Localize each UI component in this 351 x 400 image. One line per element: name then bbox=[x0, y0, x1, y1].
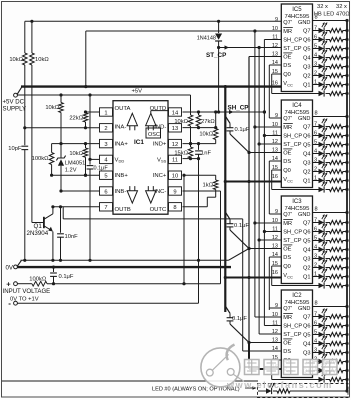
svg-text:8: 8 bbox=[315, 301, 318, 307]
label LM4051 bbox=[65, 161, 86, 174]
bus joints bbox=[253, 110, 266, 241]
svg-text:0.1μF: 0.1μF bbox=[235, 127, 250, 133]
svg-text:16: 16 bbox=[272, 174, 278, 180]
svg-text:+5V: +5V bbox=[132, 88, 143, 94]
svg-text:1: 1 bbox=[104, 110, 107, 116]
svg-text:11: 11 bbox=[272, 321, 278, 327]
wire pin13 IND- line bbox=[183, 126, 218, 129]
resistor 10k (ref) bbox=[59, 103, 64, 113]
svg-text:Q3: Q3 bbox=[303, 65, 311, 71]
IC4 GND pin 8 bbox=[298, 111, 349, 123]
wire ref node bbox=[59, 113, 62, 146]
label 0V TO +1V bbox=[10, 297, 39, 303]
svg-text:8: 8 bbox=[315, 111, 318, 117]
svg-text:100kΩ: 100kΩ bbox=[29, 277, 47, 283]
wire IC4 pin14 link down bbox=[268, 161, 270, 214]
label 15k bbox=[174, 150, 188, 156]
svg-text:OE: OE bbox=[283, 55, 291, 61]
svg-text:9: 9 bbox=[173, 189, 176, 195]
svg-text:IC2: IC2 bbox=[292, 293, 302, 299]
svg-text:0.1μF: 0.1μF bbox=[59, 274, 74, 280]
resistor 22k bbox=[83, 110, 88, 129]
svg-text:Q7: Q7 bbox=[303, 125, 311, 131]
svg-text:10kΩ: 10kΩ bbox=[69, 151, 83, 157]
svg-text:12: 12 bbox=[172, 142, 178, 148]
IC3 GND pin 8 bbox=[298, 207, 349, 219]
shift register IC5 74HC595 box bbox=[281, 4, 312, 92]
wire pin12 IND+ line bbox=[183, 142, 216, 145]
svg-text:15kΩ: 15kΩ bbox=[174, 150, 188, 156]
label +5V over IC1 bbox=[132, 88, 143, 94]
svg-text:15: 15 bbox=[272, 261, 278, 267]
svg-text:13: 13 bbox=[272, 338, 278, 344]
IC4 LED rows bbox=[272, 118, 349, 193]
svg-text:VDD: VDD bbox=[115, 157, 125, 163]
svg-text:Q0: Q0 bbox=[283, 72, 291, 78]
IC2 LED rows bbox=[272, 308, 349, 383]
svg-text:OUTB: OUTB bbox=[115, 207, 131, 213]
svg-text:Q7: Q7 bbox=[303, 221, 311, 227]
input + terminal bbox=[6, 280, 17, 289]
svg-text:9: 9 bbox=[275, 113, 278, 119]
svg-text:INB+: INB+ bbox=[115, 173, 129, 179]
capacitor 0.1uF IC3 bbox=[225, 212, 250, 250]
svg-text:OUTA: OUTA bbox=[115, 106, 131, 112]
wire ST_CP bbox=[217, 45, 281, 112]
svg-text:Q7': Q7' bbox=[283, 20, 292, 26]
label ST_CP bbox=[206, 52, 226, 59]
LED supply bus right bbox=[313, 21, 348, 392]
svg-text:10: 10 bbox=[172, 174, 178, 180]
wire pin10 INC+ line bbox=[182, 174, 215, 284]
svg-text:13: 13 bbox=[272, 148, 278, 154]
svg-text:Q6: Q6 bbox=[303, 324, 311, 330]
svg-text:9: 9 bbox=[275, 209, 278, 215]
label LED #0 bbox=[152, 386, 257, 392]
svg-text:ST_CP: ST_CP bbox=[283, 238, 301, 244]
svg-text:INPUT VOLTAGE: INPUT VOLTAGE bbox=[3, 288, 51, 295]
diode LM4051 1.2V bbox=[56, 144, 65, 193]
diode 1N4148 bbox=[215, 20, 222, 48]
wire input node bbox=[47, 282, 221, 285]
+5V wire (lower rail) bbox=[17, 93, 190, 96]
svg-text:Q5: Q5 bbox=[303, 239, 311, 245]
svg-text:11: 11 bbox=[272, 227, 278, 233]
svg-text:IC4: IC4 bbox=[292, 103, 302, 109]
label 100k bbox=[32, 156, 50, 162]
oscillator OSC box bbox=[146, 128, 161, 138]
svg-text:11: 11 bbox=[272, 35, 278, 41]
svg-text:Q5: Q5 bbox=[303, 333, 311, 339]
svg-text:10kΩ: 10kΩ bbox=[174, 119, 188, 125]
svg-text:GND: GND bbox=[298, 306, 311, 312]
svg-text:OUTD: OUTD bbox=[150, 106, 167, 112]
svg-text:14: 14 bbox=[272, 346, 278, 352]
svg-text:8: 8 bbox=[315, 207, 318, 213]
svg-text:1N4148: 1N4148 bbox=[197, 36, 216, 42]
label 100k input bbox=[29, 277, 47, 283]
wire pin4 VDD line bbox=[90, 158, 100, 160]
label Q1 bbox=[34, 223, 43, 230]
svg-text:SH_CP: SH_CP bbox=[283, 230, 302, 236]
wire OUTD SH_CP line bbox=[183, 110, 267, 114]
op-amp C arrow bbox=[146, 186, 156, 203]
capacitor 0.1uF IC4 bbox=[225, 116, 250, 154]
svg-text:2: 2 bbox=[104, 126, 107, 132]
svg-text:-: - bbox=[8, 299, 11, 308]
wire 10pF branch bbox=[23, 65, 26, 145]
wire VCC IC4 feed bbox=[224, 180, 282, 183]
bus OE/VCC vertical bbox=[247, 57, 250, 343]
label 10k right bbox=[35, 57, 49, 63]
svg-text:DS: DS bbox=[283, 159, 291, 165]
label 10k pin3 bbox=[69, 151, 83, 157]
label 0.1uF VDD bbox=[94, 166, 109, 172]
svg-text:10: 10 bbox=[272, 26, 278, 32]
shift register IC2 74HC595 box bbox=[281, 290, 312, 378]
svg-text:LM4051: LM4051 bbox=[65, 161, 86, 167]
svg-text:Q0: Q0 bbox=[283, 168, 291, 174]
svg-text:Q6: Q6 bbox=[303, 134, 311, 140]
svg-text:10: 10 bbox=[272, 312, 278, 318]
svg-text:ST_CP: ST_CP bbox=[206, 52, 226, 59]
wire pin1 OUTA line bbox=[86, 111, 100, 113]
svg-text:Q1: Q1 bbox=[34, 223, 43, 230]
svg-text:470Ω: 470Ω bbox=[336, 11, 350, 17]
label INPUT VOLTAGE bbox=[3, 288, 51, 295]
label 22k bbox=[69, 115, 83, 121]
label 1nF bbox=[201, 150, 211, 156]
svg-text:10: 10 bbox=[272, 122, 278, 128]
label 1N4148 bbox=[197, 36, 216, 42]
IC1 pin labels bbox=[115, 106, 168, 213]
svg-text:Q2: Q2 bbox=[303, 266, 311, 272]
svg-text:Q4: Q4 bbox=[303, 152, 311, 158]
svg-text:+5V DC: +5V DC bbox=[3, 99, 25, 106]
resistor 10k c bbox=[213, 112, 218, 144]
svg-text:11: 11 bbox=[172, 158, 178, 164]
capacitor 0.1uF (VDD) bbox=[87, 159, 94, 262]
svg-text:INA+: INA+ bbox=[115, 141, 129, 147]
IC3 LED rows bbox=[272, 214, 349, 289]
svg-text:Q6: Q6 bbox=[303, 230, 311, 236]
transistor Q1 2N3904 bbox=[32, 207, 55, 262]
svg-text:13: 13 bbox=[272, 52, 278, 58]
svg-text:Q1: Q1 bbox=[303, 83, 311, 89]
svg-text:15: 15 bbox=[272, 69, 278, 75]
svg-text:7: 7 bbox=[104, 205, 107, 211]
capacitor 1nF bbox=[195, 144, 202, 161]
svg-text:Q4: Q4 bbox=[303, 56, 311, 62]
svg-text:8: 8 bbox=[173, 205, 176, 211]
+5V bus (thick) bbox=[17, 87, 281, 95]
IC1 right pin numbers 14-8 bbox=[169, 108, 182, 211]
wire OUTB route to IC2 DS bbox=[63, 207, 281, 351]
svg-text:OUTC: OUTC bbox=[150, 207, 167, 213]
svg-text:MR: MR bbox=[283, 29, 292, 35]
svg-text:Q1: Q1 bbox=[303, 275, 311, 281]
wire pin7 OUTB line bbox=[51, 205, 99, 208]
svg-text:INB-: INB- bbox=[115, 189, 127, 195]
op-amp D arrow bbox=[146, 111, 168, 131]
svg-text:13: 13 bbox=[272, 244, 278, 250]
IC5 LED rows bbox=[272, 22, 349, 97]
wire pin11 VSS line bbox=[183, 159, 201, 304]
svg-text:10kΩ: 10kΩ bbox=[199, 132, 213, 138]
svg-text:2N3904: 2N3904 bbox=[27, 230, 49, 237]
label 1k bbox=[203, 182, 214, 188]
svg-text:SH_CP: SH_CP bbox=[228, 104, 249, 111]
svg-text:Q4: Q4 bbox=[303, 342, 311, 348]
wire VDD riser bbox=[88, 95, 91, 161]
svg-text:12: 12 bbox=[272, 235, 278, 241]
svg-text:22kΩ: 22kΩ bbox=[69, 115, 83, 121]
svg-text:IC5: IC5 bbox=[292, 7, 302, 13]
wire 0V to busA diagonal bbox=[228, 249, 249, 261]
svg-text:IND+: IND+ bbox=[153, 141, 167, 147]
svg-text:6: 6 bbox=[104, 189, 107, 195]
svg-text:100kΩ: 100kΩ bbox=[32, 156, 50, 162]
svg-text:10nF: 10nF bbox=[65, 234, 79, 240]
svg-text:10kΩ: 10kΩ bbox=[35, 57, 49, 63]
svg-text:1.2V: 1.2V bbox=[65, 168, 77, 174]
wire VCC IC3 feed bbox=[224, 276, 282, 279]
svg-text:Q7: Q7 bbox=[303, 29, 311, 35]
IC5 GND pin 8 bbox=[298, 15, 349, 27]
svg-text:ST_CP: ST_CP bbox=[283, 142, 301, 148]
svg-text:DS: DS bbox=[283, 255, 291, 261]
svg-text:0.1μF: 0.1μF bbox=[232, 316, 247, 322]
label 10k c bbox=[199, 132, 213, 138]
resistor 10k (to Q1 base) bbox=[30, 20, 35, 223]
wire pin3 INA+ line bbox=[61, 143, 100, 145]
svg-text:12: 12 bbox=[272, 139, 278, 145]
IC1 left pin numbers 1-7 bbox=[100, 108, 113, 211]
watermark text row2 bbox=[226, 380, 333, 390]
svg-text:Q6: Q6 bbox=[303, 38, 311, 44]
shift register IC4 74HC595 box bbox=[281, 100, 312, 188]
svg-text:VCC: VCC bbox=[283, 177, 293, 183]
svg-text:IC1: IC1 bbox=[134, 139, 144, 146]
resistor 10k (pin3-pin5) bbox=[83, 142, 88, 177]
IC2 left pins bbox=[249, 303, 302, 373]
svg-text:12: 12 bbox=[272, 43, 278, 49]
svg-text:SUPPLY: SUPPLY bbox=[3, 106, 27, 113]
svg-text:3: 3 bbox=[104, 142, 107, 148]
wire IC5 pin14 link down bbox=[268, 65, 270, 118]
op-amp IC1 box bbox=[113, 101, 168, 215]
svg-text:SH_CP: SH_CP bbox=[283, 324, 302, 330]
svg-text:9: 9 bbox=[275, 17, 278, 23]
label 10nF bbox=[65, 234, 79, 240]
svg-text:1nF: 1nF bbox=[201, 150, 211, 156]
svg-text:15: 15 bbox=[272, 165, 278, 171]
wire Q7 feedback (IC5 pin9 to top-left) bbox=[25, 20, 282, 22]
svg-text:INC-: INC- bbox=[154, 189, 166, 195]
IC4 left pins bbox=[249, 113, 302, 183]
svg-text:GND: GND bbox=[298, 116, 311, 122]
svg-text:10kΩ: 10kΩ bbox=[45, 105, 59, 111]
label 10k ref bbox=[45, 105, 59, 111]
svg-text:32 x: 32 x bbox=[317, 4, 328, 10]
svg-text:DS: DS bbox=[283, 63, 291, 69]
capacitor 0.1uF input bbox=[50, 266, 57, 284]
svg-text:10kΩ: 10kΩ bbox=[9, 57, 23, 63]
svg-text:Q2: Q2 bbox=[303, 74, 311, 80]
svg-text:INA-: INA- bbox=[115, 125, 127, 131]
svg-text:16: 16 bbox=[272, 270, 278, 276]
svg-text:VCC: VCC bbox=[283, 81, 293, 87]
svg-text:MR: MR bbox=[283, 125, 292, 131]
svg-text:11: 11 bbox=[272, 131, 278, 137]
label 32x 470 bbox=[336, 4, 350, 17]
op-amp A arrow bbox=[127, 113, 137, 130]
svg-text:MR: MR bbox=[283, 221, 292, 227]
svg-text:13: 13 bbox=[172, 126, 178, 132]
0V wire (upper) bbox=[17, 260, 228, 266]
resistor 15k bbox=[188, 144, 193, 161]
svg-text:14: 14 bbox=[172, 110, 179, 116]
bus SH_CP vertical bbox=[263, 40, 265, 326]
svg-text:INC+: INC+ bbox=[153, 173, 167, 179]
wire input minus bbox=[17, 302, 198, 304]
svg-text:Q1: Q1 bbox=[303, 179, 311, 185]
svg-text:OE: OE bbox=[283, 247, 291, 253]
resistor 100k (ref divider) bbox=[49, 144, 61, 177]
IC2 GND pin 8 bbox=[298, 301, 349, 313]
capacitor 10nF bbox=[57, 207, 64, 262]
bus ST_CP vertical bbox=[258, 48, 260, 335]
label 10k a bbox=[174, 119, 188, 125]
dashed box optional LED bbox=[258, 384, 349, 398]
resistor 10k from +5V bbox=[188, 95, 193, 145]
svg-text:GND: GND bbox=[298, 212, 311, 218]
wire pin2 INA- line bbox=[25, 127, 100, 129]
svg-text:OSC: OSC bbox=[148, 132, 160, 138]
svg-text:ST_CP: ST_CP bbox=[283, 46, 301, 52]
svg-text:Q3: Q3 bbox=[303, 257, 311, 263]
svg-text:OE: OE bbox=[283, 151, 291, 157]
label SH_CP bbox=[228, 104, 249, 111]
watermark text row1 bbox=[245, 360, 338, 375]
svg-text:Q5: Q5 bbox=[303, 143, 311, 149]
input - terminal bbox=[8, 299, 17, 308]
+5V dropline bbox=[224, 85, 227, 312]
wire IC3 pin14 link down bbox=[268, 257, 270, 310]
svg-text:IND-: IND- bbox=[154, 125, 166, 131]
resistor 10k (feedback integrator) bbox=[23, 21, 28, 65]
label 0.1uF input bbox=[59, 274, 74, 280]
svg-text:27kΩ: 27kΩ bbox=[201, 119, 215, 125]
svg-text:Q7': Q7' bbox=[283, 116, 292, 122]
svg-text:9: 9 bbox=[275, 303, 278, 309]
svg-text:14: 14 bbox=[272, 60, 278, 66]
svg-text:ST_CP: ST_CP bbox=[283, 332, 301, 338]
wire 10k pullup from +5V bbox=[60, 95, 62, 103]
svg-text:OE: OE bbox=[283, 341, 291, 347]
svg-text:Q5: Q5 bbox=[303, 47, 311, 53]
svg-text:GND: GND bbox=[298, 20, 311, 26]
svg-text:10: 10 bbox=[272, 218, 278, 224]
resistor 100k input bbox=[32, 281, 47, 286]
svg-text:10pF: 10pF bbox=[8, 146, 22, 152]
0V bus (thick) bbox=[17, 266, 231, 268]
svg-text:Q3: Q3 bbox=[303, 161, 311, 167]
svg-text:DS: DS bbox=[283, 349, 291, 355]
resistor 1k bbox=[213, 175, 218, 197]
svg-text:Q2: Q2 bbox=[303, 170, 311, 176]
svg-text:VCC: VCC bbox=[283, 273, 293, 279]
capacitor 10pF bbox=[21, 146, 28, 262]
wire MR line (IC5 pin10 to +5V) bbox=[84, 29, 281, 88]
wire input bbox=[17, 283, 32, 285]
label 27k bbox=[201, 119, 215, 125]
svg-text:Q7': Q7' bbox=[283, 212, 292, 218]
svg-text:0.1μF: 0.1μF bbox=[234, 223, 249, 229]
svg-text:32 x: 32 x bbox=[336, 4, 347, 10]
0V terminal bbox=[6, 264, 18, 271]
IC3 left pins bbox=[249, 209, 302, 279]
op-amp B arrow bbox=[127, 186, 137, 203]
svg-text:Q7': Q7' bbox=[283, 306, 292, 312]
LED #0 row bbox=[258, 383, 349, 395]
wire 1k to OUTC bbox=[183, 197, 216, 207]
svg-text:0V: 0V bbox=[6, 264, 14, 271]
svg-text:Q7: Q7 bbox=[303, 315, 311, 321]
+5V DC supply terminal bbox=[3, 93, 27, 112]
svg-text:14: 14 bbox=[272, 252, 278, 258]
svg-text:SH_CP: SH_CP bbox=[283, 38, 302, 44]
svg-text:5: 5 bbox=[104, 174, 107, 180]
svg-text:1kΩ: 1kΩ bbox=[203, 182, 214, 188]
svg-text:12: 12 bbox=[272, 329, 278, 335]
wire pin6 INB- line bbox=[61, 190, 100, 192]
bus MR vertical bbox=[254, 31, 256, 317]
capacitor 0.1uF IC2 bbox=[225, 306, 250, 344]
svg-text:16: 16 bbox=[272, 81, 278, 87]
svg-text:SH_CP: SH_CP bbox=[283, 134, 302, 140]
wire VCC IC2 elbow bbox=[249, 343, 281, 370]
wire pin5 INB+ line bbox=[52, 174, 100, 177]
svg-text:Q4: Q4 bbox=[303, 248, 311, 254]
label 10k left bbox=[9, 57, 23, 63]
resistor 27k bbox=[196, 112, 201, 129]
svg-text:MR: MR bbox=[283, 315, 292, 321]
watermark logo circle bbox=[201, 345, 244, 387]
label 10pF bbox=[8, 146, 22, 152]
svg-text:IC3: IC3 bbox=[292, 199, 302, 205]
svg-text:14: 14 bbox=[272, 156, 278, 162]
wire LED0 feed bbox=[2, 380, 258, 382]
IC5 left pins bbox=[249, 17, 302, 87]
label 2N3904 bbox=[27, 230, 49, 237]
svg-text:HB LED: HB LED bbox=[314, 11, 334, 17]
svg-text:VSS: VSS bbox=[157, 157, 167, 163]
shift register IC3 74HC595 box bbox=[281, 196, 312, 284]
wire pin9 INC- line bbox=[183, 191, 221, 284]
svg-text:www.elecfans.com: www.elecfans.com bbox=[226, 380, 333, 390]
label 32x HB LED bbox=[314, 4, 334, 17]
svg-text:Q3: Q3 bbox=[303, 351, 311, 357]
svg-text:Q0: Q0 bbox=[283, 264, 291, 270]
